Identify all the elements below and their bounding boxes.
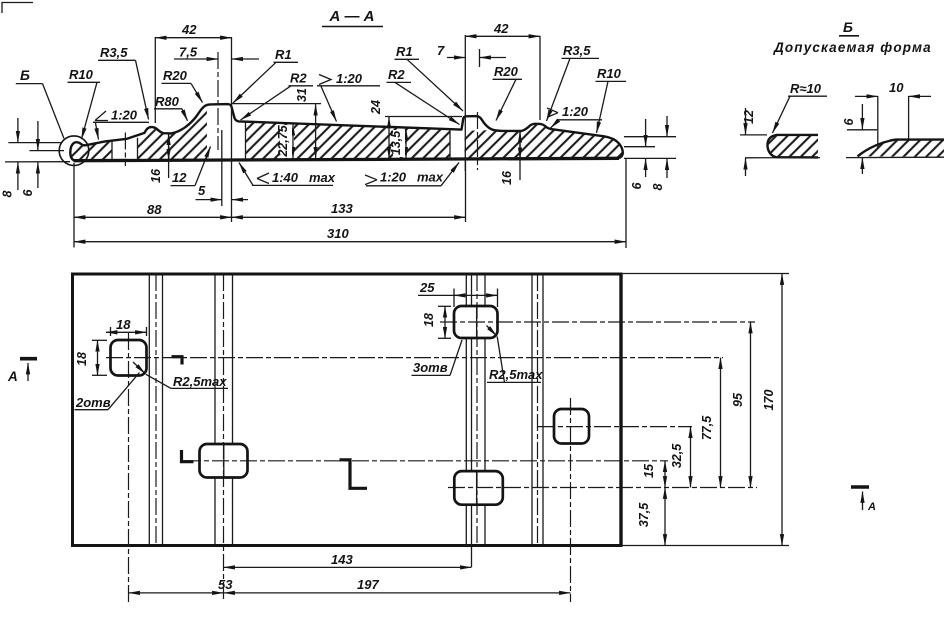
svg-text:R3,5: R3,5 [563, 43, 591, 58]
rib2 edge line [465, 274, 467, 306]
svg-text:42: 42 [181, 22, 197, 37]
section A-A hatch region 2 (bump and R80 ramp) [138, 105, 208, 160]
hole edge line seat left [245, 122, 247, 160]
dim 18 hole1 height [92, 339, 107, 341]
svg-text:12: 12 [742, 110, 756, 124]
detail B shape 2 baseline [846, 156, 944, 158]
hole edge line seat right [449, 129, 451, 159]
svg-text:12: 12 [172, 170, 187, 185]
slope flag 1:20max under seat [365, 175, 377, 185]
svg-text:3отв: 3отв [413, 360, 448, 375]
svg-text:Б: Б [843, 19, 853, 35]
svg-text:18: 18 [75, 352, 89, 366]
hole row 4 centerline [448, 487, 757, 489]
svg-text:16: 16 [500, 170, 514, 185]
bump1 centerline [155, 274, 157, 546]
rib2 edge line [484, 274, 486, 306]
svg-text:24: 24 [369, 100, 383, 115]
centerline rib1 [217, 52, 219, 150]
section arrow A right [851, 485, 869, 489]
centerline rib2 [477, 112, 479, 170]
dim 25 hole2 width [453, 289, 455, 308]
dim 133 [465, 160, 467, 222]
section trace step mark 1 upper [172, 357, 183, 365]
svg-text:R1: R1 [275, 47, 292, 62]
dim 18 hole1 width [110, 327, 112, 336]
hole2 (25x18) [454, 306, 498, 338]
slope flag 1:20 right [547, 108, 558, 117]
svg-text:6: 6 [842, 117, 856, 125]
dim 170 [781, 274, 783, 546]
svg-text:7: 7 [437, 43, 445, 58]
dim 16 left valley height [168, 134, 170, 178]
svg-text:А: А [7, 369, 18, 384]
svg-text:53: 53 [218, 577, 233, 592]
svg-text:R3,5: R3,5 [100, 45, 128, 60]
dim 24 rib2 height [385, 116, 462, 118]
hole4 (25x18) [454, 471, 503, 505]
svg-text:8: 8 [1, 190, 15, 197]
svg-text:R2,5max: R2,5max [173, 374, 227, 389]
rib1 centerline (hole row axis) [223, 274, 225, 602]
svg-text:95: 95 [731, 392, 745, 407]
svg-text:R2: R2 [388, 67, 405, 82]
hole row 2 centerline [440, 321, 755, 323]
dim 77,5 [720, 358, 722, 488]
detail B shape 1 baseline [745, 157, 820, 159]
dim 18 hole2 height [438, 305, 451, 307]
detail B shape 1 outline [767, 135, 818, 158]
hole row 3 centerline [184, 460, 668, 462]
hole3 (25x18) [200, 444, 248, 478]
left height dim 8 [8, 142, 62, 144]
svg-text:10: 10 [889, 80, 904, 95]
dim 310 [625, 159, 627, 249]
dim 5 rib face offset [221, 130, 223, 206]
section A-A hatch region 3 (rail seat) [246, 122, 451, 161]
left height dim 6 [30, 150, 65, 152]
svg-text:R10: R10 [597, 66, 622, 81]
svg-text:Б: Б [20, 67, 30, 83]
svg-text:32,5: 32,5 [670, 443, 684, 468]
bottom edge extension right [621, 545, 789, 547]
rib2 centerline [476, 274, 478, 546]
section A-A profile outline [70, 104, 623, 161]
bump2 edge line [542, 274, 544, 546]
svg-text:6: 6 [21, 188, 35, 196]
svg-text:88: 88 [147, 202, 162, 217]
svg-text:18: 18 [116, 317, 131, 332]
dim 95 [750, 322, 752, 488]
hole5 (18x18) [554, 409, 589, 444]
svg-text:7,5: 7,5 [179, 45, 198, 60]
plan right end edge (bold) [619, 274, 622, 546]
svg-text:42: 42 [493, 21, 509, 36]
svg-text:R≈10: R≈10 [790, 81, 822, 96]
slope flag 1:20 seat [319, 75, 331, 85]
rib2 inner line [471, 274, 473, 306]
hole row 5 centerline [538, 426, 692, 428]
hole5 centerline vertical [570, 398, 572, 602]
section A-A hatch region 4 (right rib, valley, bump, tail) [465, 124, 623, 160]
svg-text:max: max [417, 170, 444, 185]
dim 32,5 [690, 427, 692, 488]
dim 42 left rib [154, 37, 156, 123]
svg-text:1:20: 1:20 [111, 108, 138, 123]
svg-text:1:20: 1:20 [336, 71, 363, 86]
top edge extension right [621, 273, 789, 275]
bump2 edge line [531, 274, 533, 546]
dim 22,75 seat thickness [281, 125, 294, 158]
svg-text:Допускаемая форма: Допускаемая форма [773, 40, 932, 55]
svg-text:max: max [309, 170, 336, 185]
section arrow A left [20, 357, 37, 361]
svg-text:R20: R20 [494, 64, 519, 79]
svg-text:2отв: 2отв [75, 395, 111, 410]
svg-text:R10: R10 [69, 67, 94, 82]
svg-text:310: 310 [327, 226, 349, 241]
hole row 1 centerline [106, 357, 723, 359]
svg-text:18: 18 [422, 313, 436, 327]
svg-text:31: 31 [295, 88, 309, 102]
balloon circle B [59, 136, 89, 166]
dim 16 right valley height [519, 132, 521, 181]
svg-text:R20: R20 [163, 68, 188, 83]
dim 143 [224, 566, 472, 568]
right end height dim 6 [624, 136, 676, 138]
section A-A hatch region 1 (left end to hole gap) [71, 141, 112, 161]
dim 53 [129, 592, 224, 594]
bump1 edge line [162, 274, 164, 546]
svg-text:А: А [867, 501, 876, 513]
svg-text:6: 6 [630, 181, 644, 189]
svg-text:133: 133 [331, 201, 353, 216]
dim 31 rib height [232, 103, 321, 105]
svg-text:22,75: 22,75 [276, 124, 290, 157]
scan corner artifact top-left [2, 3, 33, 14]
dim 88 [73, 163, 75, 248]
detail B shape 2 outline [858, 140, 945, 157]
section bottom edge [74, 158, 620, 160]
svg-text:37,5: 37,5 [637, 502, 651, 527]
svg-text:R2: R2 [290, 71, 307, 86]
detail B dim 12 [740, 134, 767, 136]
svg-text:R80: R80 [155, 94, 180, 109]
svg-text:R1: R1 [396, 44, 413, 59]
dim 42 right rib [464, 35, 466, 171]
rib1 edge line [232, 274, 234, 444]
centerline hole1 in section [124, 133, 126, 167]
rib1 edge line [214, 274, 216, 444]
svg-text:5: 5 [198, 183, 206, 198]
section trace step mark 1 lower [182, 450, 194, 462]
dim 197 [224, 592, 571, 594]
svg-text:R2,5max: R2,5max [489, 367, 543, 382]
svg-text:77,5: 77,5 [700, 415, 714, 440]
svg-text:143: 143 [331, 552, 353, 567]
slope flag 1:20 left [95, 111, 108, 121]
svg-text:1:20: 1:20 [380, 170, 407, 185]
slope flag 1:40max under seat [257, 173, 269, 184]
detail B shape 1 hatch [767, 135, 818, 158]
bump1 edge line [148, 274, 150, 546]
detail B shape 2 hatch [858, 140, 945, 157]
bump2 centerline [537, 274, 539, 546]
dim 15 [664, 461, 666, 488]
svg-text:8: 8 [651, 183, 665, 190]
svg-text:А — А: А — А [329, 8, 375, 25]
section trace step mark 2 [340, 460, 368, 489]
detail B dim 10 [877, 96, 879, 149]
svg-text:15: 15 [642, 463, 656, 478]
dim 13,5 seat thickness right [405, 129, 407, 159]
svg-text:197: 197 [357, 577, 379, 592]
plan view plate outline [73, 274, 622, 546]
hole edge line left gap [111, 141, 113, 161]
svg-text:1:40: 1:40 [272, 170, 299, 185]
svg-text:170: 170 [762, 390, 776, 411]
dim 37,5 [664, 488, 666, 546]
svg-text:13,5: 13,5 [389, 130, 403, 155]
hole1 (18x18) [111, 340, 147, 376]
hole1 centerline vertical [128, 333, 130, 602]
svg-text:16: 16 [149, 168, 163, 183]
right end height dim 8 [666, 116, 668, 136]
svg-text:25: 25 [419, 280, 435, 295]
svg-text:1:20: 1:20 [562, 104, 589, 119]
detail B dim 6 [847, 129, 877, 131]
